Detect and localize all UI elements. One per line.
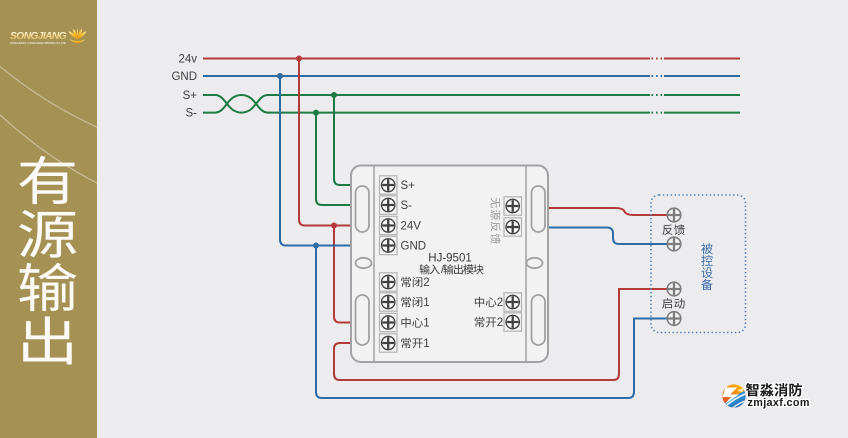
svg-text:S+: S+ [183,90,198,102]
svg-text:GND: GND [171,71,197,83]
svg-text:24v: 24v [178,54,197,66]
svg-text:1: 1 [423,297,429,309]
svg-text:1: 1 [423,338,429,350]
svg-text:SONGJIANG YUNAN ELECTRONIC CO.: SONGJIANG YUNAN ELECTRONIC CO.,LTD [10,41,67,45]
svg-text:S+: S+ [401,180,416,192]
svg-text:HJ-9501: HJ-9501 [428,253,471,265]
svg-text:S-: S- [401,200,413,212]
svg-text:S-: S- [186,108,198,120]
svg-text:zmjaxf.com: zmjaxf.com [748,397,810,409]
svg-text:2: 2 [423,277,429,289]
svg-text:2: 2 [497,317,503,329]
svg-text:GND: GND [401,241,427,253]
svg-text:24V: 24V [401,221,422,233]
svg-text:2: 2 [497,297,503,309]
svg-text:1: 1 [423,317,429,329]
